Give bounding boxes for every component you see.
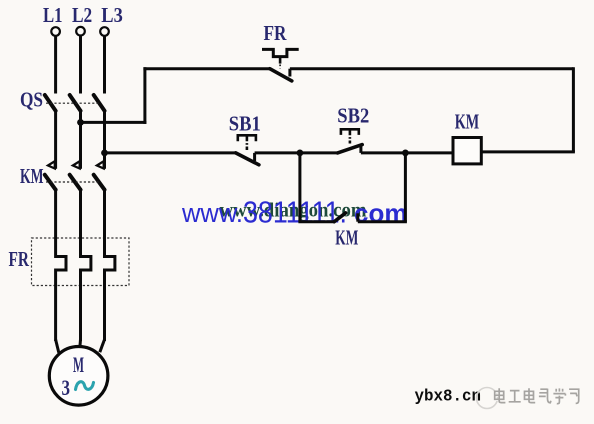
pushbutton SB2 actuator cap xyxy=(341,129,359,135)
wire L2 terminal to QS xyxy=(79,36,82,94)
svg-text:ybx8.cn: ybx8.cn xyxy=(415,388,482,407)
contactor KM aux NO tick xyxy=(356,213,359,221)
pushbutton SB1 actuator stem xyxy=(246,135,249,150)
wire aux branch right vertical xyxy=(404,153,407,222)
FR NC contact right tick xyxy=(288,69,291,77)
FR NC contact blade xyxy=(270,69,292,81)
wire SB1 to node A xyxy=(255,151,300,154)
wire node A to SB2 xyxy=(300,151,338,154)
svg-text:KM: KM xyxy=(455,110,480,134)
switch QS linkage dashed xyxy=(46,102,100,104)
wire aux branch bottom right xyxy=(358,220,407,223)
thermal relay FR dashed box xyxy=(32,238,130,286)
svg-text:KM: KM xyxy=(20,164,44,188)
switch QS pole 2 blade xyxy=(70,95,81,111)
svg-text:www.3811111.com: www.3811111.com xyxy=(181,194,407,229)
wire lead into motor 2 xyxy=(78,340,82,349)
wire L1 terminal to QS xyxy=(54,36,57,94)
contactor KM main contact 2 fixed chevron xyxy=(73,161,80,168)
wire + heater FR phase 1 xyxy=(56,188,66,341)
logo stamp circle xyxy=(477,388,498,409)
pushbutton SB2 NO right tick xyxy=(359,144,362,153)
pushbutton SB1 NC right tick xyxy=(253,153,256,161)
wire tap to riser xyxy=(81,121,147,124)
motor ac tilde xyxy=(76,382,94,390)
wire lead into motor 3 xyxy=(100,340,105,353)
contactor KM linkage dashed xyxy=(46,181,100,183)
wire top rail right of FR contact xyxy=(290,67,574,70)
wire QS pole1 to KM contact xyxy=(54,111,57,169)
FR trip stub xyxy=(279,57,282,64)
FR trip dotted link xyxy=(279,65,281,69)
wire right drop to KM coil xyxy=(481,150,575,153)
svg-text:SB1: SB1 xyxy=(229,112,261,136)
svg-text:L2: L2 xyxy=(72,3,92,27)
node B xyxy=(402,150,409,157)
wire aux branch left vertical xyxy=(298,153,301,222)
pushbutton SB2 NO blade xyxy=(338,145,363,153)
wire QS pole3 to KM contact xyxy=(103,111,106,169)
pushbutton SB1 actuator cap xyxy=(238,135,256,141)
thermal relay FR trip element symbol xyxy=(262,49,299,56)
svg-text:FR: FR xyxy=(9,247,30,271)
wire SB2 to node B xyxy=(361,151,406,154)
terminal L3 xyxy=(100,27,109,36)
pushbutton SB1 NC blade xyxy=(236,153,259,165)
wire node B to KM coil xyxy=(405,151,453,154)
wire riser up xyxy=(143,67,146,124)
node tap L3 to control circuit xyxy=(101,150,108,157)
logo chinese text 电工电气学习 (drawn strokes) xyxy=(496,389,580,404)
contactor KM main contact 3 blade xyxy=(94,175,105,190)
wire right drop xyxy=(572,67,575,152)
contactor KM main contact 1 fixed chevron xyxy=(48,161,55,168)
svg-text:L1: L1 xyxy=(43,3,63,27)
wire + heater FR phase 2 xyxy=(81,188,91,341)
wire + heater FR phase 3 xyxy=(105,188,115,341)
svg-text:FR: FR xyxy=(264,21,288,45)
contactor KM main contact 2 blade xyxy=(70,175,81,190)
switch QS pole 1 blade xyxy=(45,95,56,111)
motor M circle xyxy=(49,347,108,406)
switch QS pole 3 blade xyxy=(94,95,105,111)
wire QS pole2 to KM contact xyxy=(79,111,82,169)
wire lead into motor 1 xyxy=(56,340,59,353)
svg-text:3: 3 xyxy=(62,375,71,400)
contactor KM aux NO blade xyxy=(334,213,345,222)
svg-text:L3: L3 xyxy=(101,3,123,27)
pushbutton SB2 actuator stem xyxy=(349,129,352,143)
terminal L1 xyxy=(51,27,60,36)
wire control row: L3 tap to SB1 xyxy=(105,151,236,154)
terminal L2 xyxy=(76,27,85,36)
wire aux branch bottom left xyxy=(298,220,334,223)
contactor KM main contact 1 blade xyxy=(45,175,56,190)
node tap L2 to control circuit xyxy=(77,119,84,126)
contactor KM main contact 3 fixed chevron xyxy=(97,161,104,168)
coil KM box xyxy=(453,138,481,164)
svg-text:QS: QS xyxy=(20,88,43,112)
svg-text:SB2: SB2 xyxy=(337,104,369,128)
svg-text:M: M xyxy=(73,352,84,377)
wire L3 terminal to QS xyxy=(103,36,106,94)
wire top rail left of FR contact xyxy=(143,67,269,70)
node A xyxy=(297,150,304,157)
svg-text:KM: KM xyxy=(335,226,358,250)
